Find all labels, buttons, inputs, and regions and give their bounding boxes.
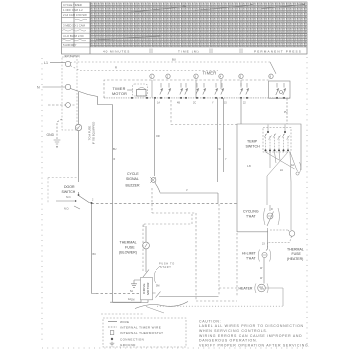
svg-text:BU: BU <box>113 148 117 151</box>
svg-text:6: 6 <box>270 76 272 79</box>
svg-text:PERMANENT PRESS: PERMANENT PRESS <box>254 50 302 54</box>
svg-text:DANGEROUS OPERATION.: DANGEROUS OPERATION. <box>199 339 258 343</box>
svg-text:L1: L1 <box>44 61 48 65</box>
svg-text:3: 3 <box>195 76 197 79</box>
svg-text:TIMER: TIMER <box>203 71 217 76</box>
svg-text:4A: 4A <box>291 164 294 167</box>
svg-text:T'HAT: T'HAT <box>246 256 256 260</box>
svg-text:PU: PU <box>284 111 288 114</box>
svg-text:OR: OR <box>156 135 160 138</box>
svg-text:R: R <box>271 208 273 211</box>
svg-text:(BLOWER): (BLOWER) <box>119 250 137 254</box>
svg-text:N: N <box>37 86 40 90</box>
svg-text:(ESTIMATED): (ESTIMATED) <box>64 55 80 58</box>
svg-text:4: 4 <box>220 76 222 79</box>
svg-text:W: W <box>260 277 263 280</box>
svg-text:4A: 4A <box>128 298 131 301</box>
svg-text:1M: 1M <box>131 299 134 302</box>
svg-text:MOTOR: MOTOR <box>146 282 150 295</box>
svg-text:V: V <box>186 189 188 192</box>
svg-text:Y: Y <box>225 158 227 161</box>
svg-text:CONNECTION: CONNECTION <box>120 337 144 341</box>
svg-text:VERIFY PROPER OPERATION AFTER: VERIFY PROPER OPERATION AFTER SERVICING. <box>199 343 310 347</box>
svg-text:INTERNAL THERMOSTAT: INTERNAL THERMOSTAT <box>120 331 163 335</box>
svg-text:40 MINUTES: 40 MINUTES <box>103 50 130 54</box>
svg-text:4 LO BUZZ 2-50: 4 LO BUZZ 2-50 <box>63 34 84 38</box>
svg-text:GROUND: GROUND <box>120 343 136 347</box>
svg-text:W: W <box>260 267 263 270</box>
svg-text:N.O.: N.O. <box>64 208 69 211</box>
svg-text:TEMP: TEMP <box>247 140 258 144</box>
svg-text:1A: 1A <box>157 102 160 105</box>
svg-text:IF SO EQUIPPED: IF SO EQUIPPED <box>92 122 96 145</box>
svg-text:C: C <box>143 225 145 228</box>
svg-text:SWITCH: SWITCH <box>62 190 76 194</box>
svg-text:SIGNAL: SIGNAL <box>126 177 139 181</box>
svg-text:22: 22 <box>243 102 246 105</box>
svg-text:SWITCH: SWITCH <box>246 145 261 149</box>
svg-text:5: 5 <box>240 76 242 79</box>
svg-text:1 OFF CAM 1-2: 1 OFF CAM 1-2 <box>63 8 83 12</box>
svg-text:WIRE: WIRE <box>120 320 129 324</box>
svg-text:LABEL ALL WIRES PRIOR TO DISCO: LABEL ALL WIRES PRIOR TO DISCONNECTION <box>199 324 304 328</box>
svg-text:GND: GND <box>47 133 55 137</box>
svg-text:2A: 2A <box>280 169 283 172</box>
svg-text:(HEATER): (HEATER) <box>287 257 303 261</box>
svg-text:4B: 4B <box>177 102 180 105</box>
svg-text:2: 2 <box>92 199 94 202</box>
svg-text:DOOR: DOOR <box>64 185 75 189</box>
svg-text:CAUTION:: CAUTION: <box>199 319 221 323</box>
svg-text:2C: 2C <box>193 102 196 105</box>
svg-text:FUSE: FUSE <box>292 252 302 256</box>
svg-text:R: R <box>115 66 117 70</box>
svg-text:5M: 5M <box>156 285 159 288</box>
svg-text:3 MED 50-1 CAM: 3 MED 50-1 CAM <box>63 24 86 28</box>
svg-text:INTERNAL TIMER WIRE: INTERNAL TIMER WIRE <box>120 326 161 330</box>
svg-text:WIRING ERRORS CAN CAUSE IMPROP: WIRING ERRORS CAN CAUSE IMPROPER AND <box>199 334 302 338</box>
svg-text:THERMAL: THERMAL <box>287 248 304 252</box>
svg-text:15: 15 <box>224 102 227 105</box>
svg-text:BUZZER: BUZZER <box>126 184 140 188</box>
svg-text:BU: BU <box>93 253 97 256</box>
svg-text:2: 2 <box>167 76 169 79</box>
svg-text:R: R <box>114 158 116 161</box>
svg-text:5 AIR DRY: 5 AIR DRY <box>63 43 77 47</box>
svg-text:5A: 5A <box>130 290 133 293</box>
svg-text:T'HAT: T'HAT <box>246 214 256 218</box>
svg-text:CYCLING: CYCLING <box>243 210 259 214</box>
svg-text:START: START <box>160 266 171 269</box>
svg-text:TIMER: TIMER <box>113 87 126 91</box>
svg-text:THERMAL: THERMAL <box>120 241 137 245</box>
svg-text:1-B: 1-B <box>247 165 251 168</box>
svg-text:WHEN SERVICING CONTROLS.: WHEN SERVICING CONTROLS. <box>199 329 268 333</box>
svg-text:MOTOR: MOTOR <box>112 92 127 96</box>
svg-text:TIME (M): TIME (M) <box>178 50 200 54</box>
svg-text:FUSE: FUSE <box>125 245 135 249</box>
svg-text:Y: Y <box>212 102 214 105</box>
svg-text:W: W <box>219 148 222 151</box>
svg-text:23: 23 <box>262 243 265 246</box>
svg-text:BU: BU <box>172 58 176 62</box>
svg-text:1: 1 <box>151 76 153 79</box>
svg-text:2 HI CAM 3-50 SW: 2 HI CAM 3-50 SW <box>63 13 87 17</box>
svg-text:N.O.: N.O. <box>66 196 71 199</box>
svg-text:CYCLE: CYCLE <box>127 172 139 176</box>
svg-text:CYCLE TIMER: CYCLE TIMER <box>63 3 82 7</box>
svg-text:HEATER: HEATER <box>239 287 253 291</box>
svg-text:HI-LIMIT: HI-LIMIT <box>242 252 256 256</box>
